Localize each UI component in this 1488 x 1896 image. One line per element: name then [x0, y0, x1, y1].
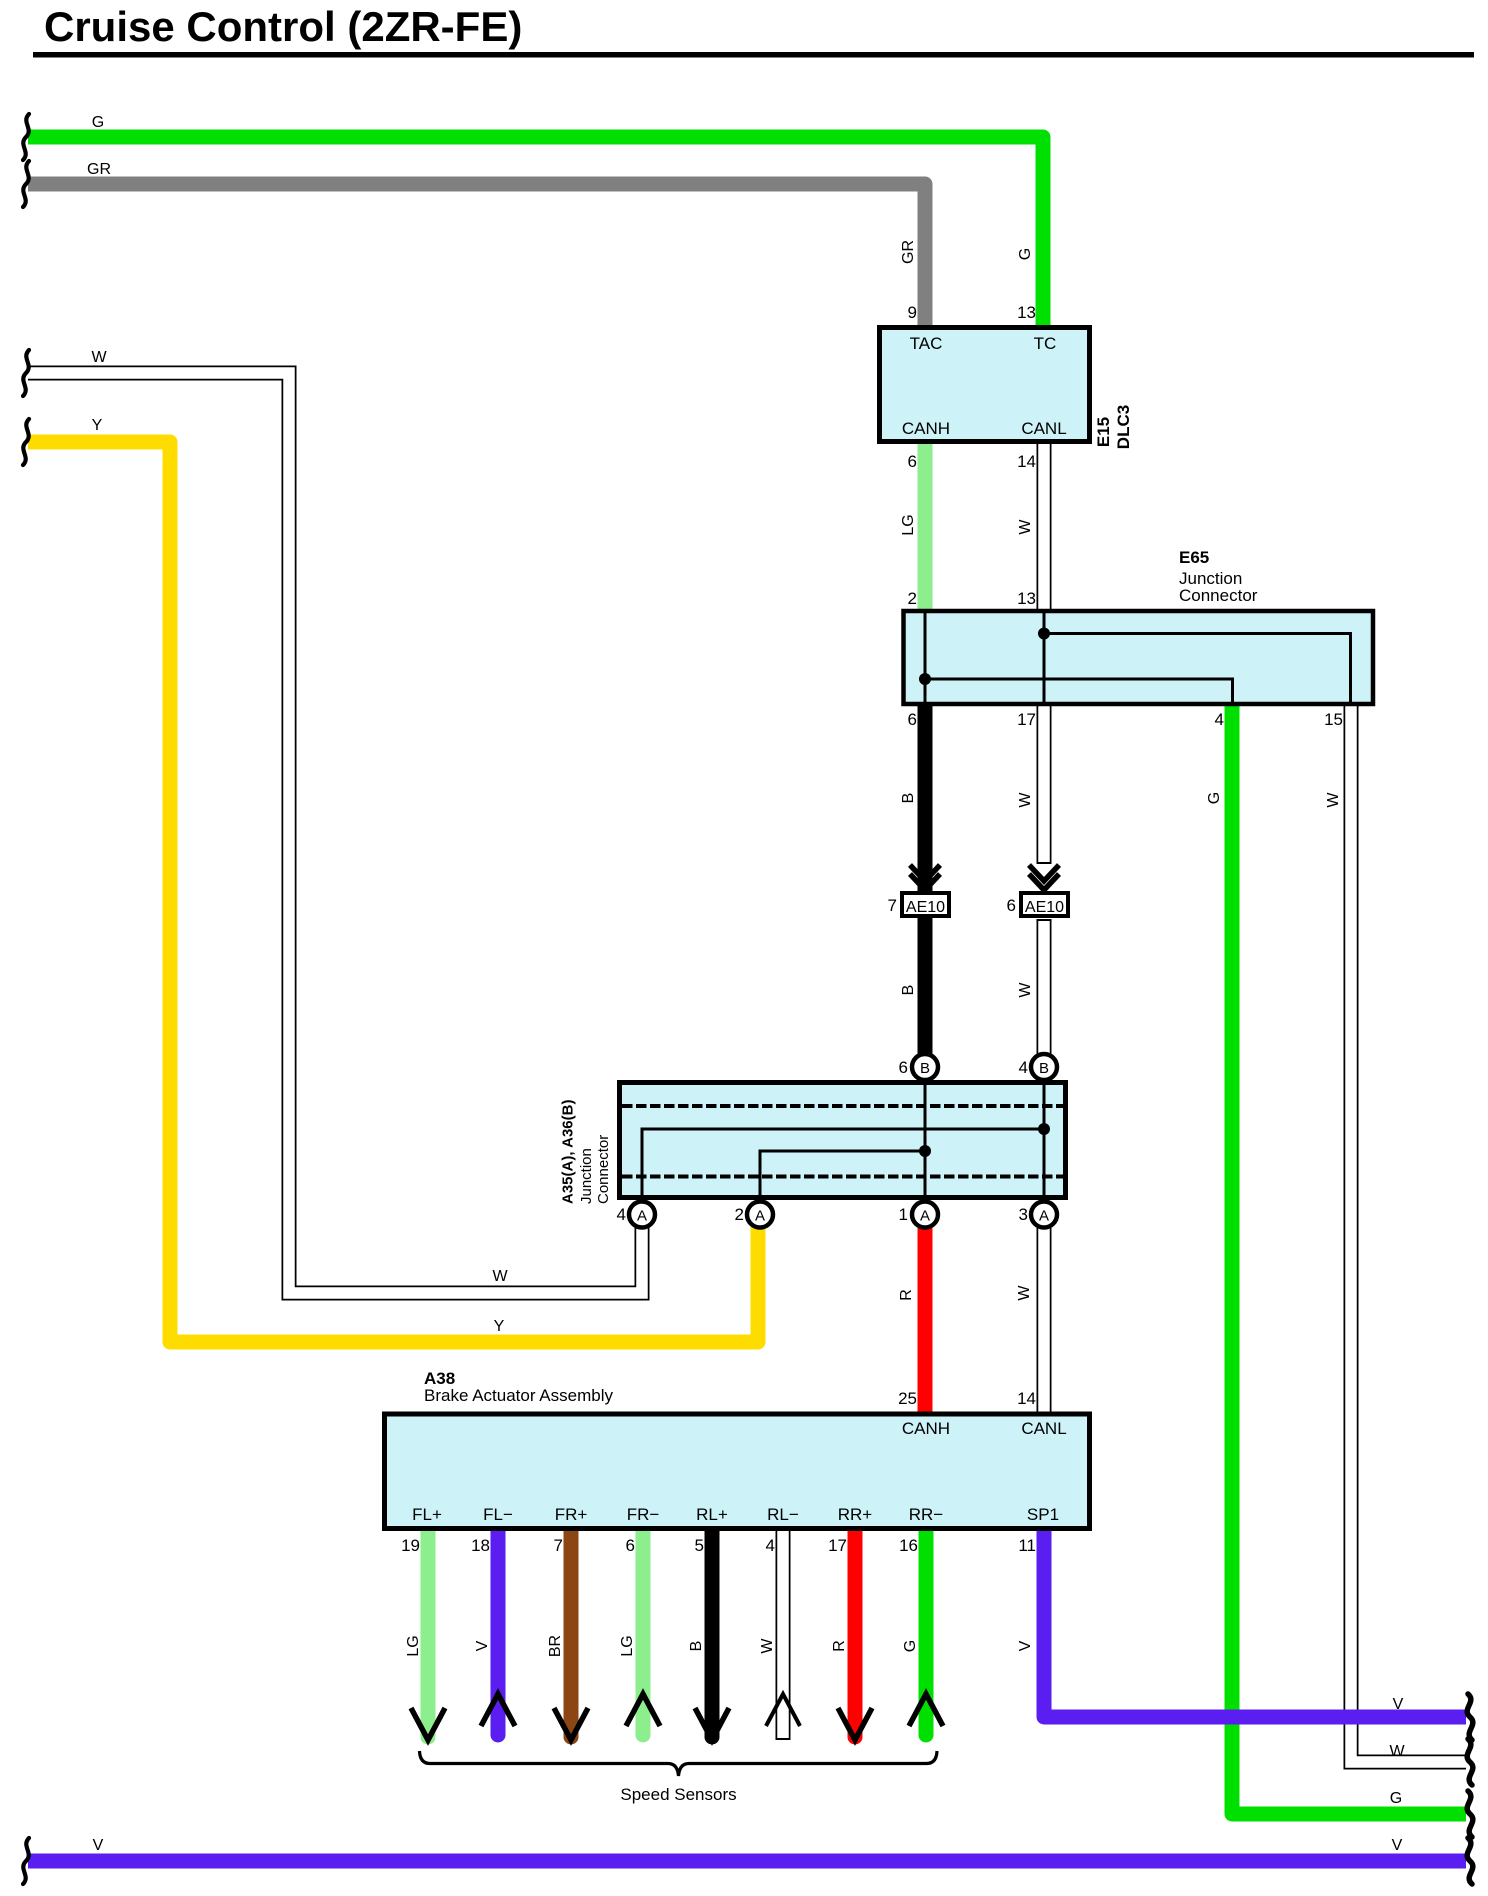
svg-text:W: W: [1017, 519, 1034, 535]
wire GR horizontal to E15 TAC: [28, 184, 925, 327]
wire G horizontal to E15 TC: [28, 137, 1043, 327]
svg-text:Connector: Connector: [1179, 586, 1258, 605]
svg-text:W: W: [91, 349, 107, 366]
wire R A38 pin 17 RR+: [848, 1528, 863, 1737]
pin circle B6: [912, 1054, 938, 1080]
svg-text:18: 18: [471, 1536, 490, 1555]
svg-text:16: 16: [899, 1536, 918, 1555]
arrow up FL-: [481, 1694, 515, 1726]
svg-text:17: 17: [828, 1536, 847, 1555]
svg-text:7: 7: [554, 1536, 563, 1555]
break symbol GR left: [23, 161, 29, 207]
svg-text:2: 2: [908, 589, 917, 608]
arrow down FL+: [411, 1708, 445, 1740]
svg-text:R: R: [898, 1289, 915, 1301]
svg-text:B: B: [900, 985, 917, 996]
wire LG E15 CANH to E65 pin 2: [918, 444, 933, 611]
svg-text:14: 14: [1017, 1389, 1036, 1408]
svg-text:15: 15: [1324, 710, 1343, 729]
svg-text:RL−: RL−: [767, 1505, 799, 1524]
svg-text:CANL: CANL: [1021, 419, 1066, 438]
A35 internal wire B6-A1: [924, 1084, 927, 1196]
wire V A38 pin 11 SP1 down right to break: [1044, 1528, 1466, 1717]
A35 dashed separator upper: [622, 1104, 1063, 1108]
arrow up FR-: [626, 1694, 660, 1726]
pin circle B4: [1031, 1054, 1057, 1080]
wire BR A38 pin 7 FR+: [564, 1528, 579, 1737]
svg-text:E65: E65: [1179, 548, 1209, 567]
svg-text:1: 1: [899, 1205, 908, 1224]
svg-text:Connector: Connector: [595, 1135, 612, 1204]
svg-text:LG: LG: [405, 1635, 422, 1656]
svg-text:W: W: [1017, 982, 1034, 998]
svg-text:FL−: FL−: [483, 1505, 513, 1524]
A35 junction dot B6: [919, 1145, 931, 1157]
svg-text:3: 3: [1019, 1205, 1028, 1224]
AE10 connector 1 box: [902, 893, 949, 916]
svg-text:E15: E15: [1094, 417, 1113, 447]
svg-text:BR: BR: [547, 1635, 564, 1657]
arrow up RL-: [766, 1694, 800, 1726]
svg-text:TC: TC: [1034, 334, 1057, 353]
pin circle A3: [1031, 1202, 1057, 1228]
break symbol V right: [1467, 1694, 1473, 1740]
break symbol G left: [23, 114, 29, 160]
svg-text:14: 14: [1017, 452, 1036, 471]
pin circle A4: [629, 1202, 655, 1228]
title underline: [33, 52, 1474, 58]
svg-text:LG: LG: [619, 1635, 636, 1656]
svg-text:6: 6: [908, 452, 917, 471]
connector E65 box: [904, 611, 1374, 704]
A35 internal wire to A2: [760, 1151, 925, 1196]
svg-text:4: 4: [1215, 710, 1224, 729]
svg-text:Brake Actuator Assembly: Brake Actuator Assembly: [424, 1386, 613, 1405]
E65 internal wire pin13-pin17: [1043, 613, 1046, 702]
svg-text:4: 4: [1019, 1058, 1028, 1077]
svg-text:B: B: [920, 1060, 930, 1077]
svg-text:Cruise Control (2ZR-FE): Cruise Control (2ZR-FE): [44, 3, 522, 50]
svg-text:W: W: [1016, 1285, 1033, 1301]
svg-text:V: V: [1392, 1837, 1403, 1854]
svg-text:11: 11: [1018, 1536, 1036, 1555]
svg-text:G: G: [1017, 248, 1034, 260]
svg-text:DLC3: DLC3: [1114, 405, 1133, 449]
wire LG A38 pin 19 FL+: [421, 1528, 436, 1737]
wire R A35 pin A1 to A38 pin 25: [918, 1222, 933, 1416]
svg-text:Junction: Junction: [578, 1148, 595, 1204]
AE10 connector 2 arrow: [1029, 865, 1059, 890]
svg-text:GR: GR: [900, 240, 917, 264]
svg-text:13: 13: [1017, 589, 1036, 608]
E65 junction dot pin2: [919, 673, 931, 685]
pin circle A1: [912, 1202, 938, 1228]
E65 internal wire pin2-pin6: [924, 613, 927, 702]
speed sensors brace: [420, 1751, 938, 1776]
svg-text:Y: Y: [92, 417, 103, 434]
svg-text:LG: LG: [900, 514, 917, 535]
svg-text:V: V: [474, 1640, 491, 1651]
svg-text:CANH: CANH: [902, 1419, 950, 1438]
arrow down RR+: [838, 1708, 872, 1740]
svg-text:V: V: [1393, 1696, 1404, 1713]
AE10 connector 2 box: [1021, 893, 1068, 916]
wire W E65 pin 15 down and right to break: [1351, 704, 1466, 1762]
connector A35/A36 box: [620, 1083, 1066, 1198]
break symbol W right: [1467, 1739, 1473, 1785]
wire LG A38 pin 6 FR-: [636, 1528, 651, 1735]
wire W AE10 to A35 pin B4: [1037, 919, 1052, 1060]
E65 internal wire pin13-pin15: [1044, 634, 1351, 703]
svg-text:4: 4: [617, 1205, 626, 1224]
svg-text:G: G: [902, 1640, 919, 1652]
svg-text:CANH: CANH: [902, 419, 950, 438]
svg-text:17: 17: [1017, 710, 1036, 729]
svg-text:RR+: RR+: [838, 1505, 873, 1524]
pin circle A2: [747, 1202, 773, 1228]
svg-text:SP1: SP1: [1027, 1505, 1059, 1524]
wire W E15 CANL to E65 pin 13: [1037, 442, 1052, 611]
svg-text:AE10: AE10: [906, 899, 945, 916]
wire W A35 pin A3 to A38 pin 14: [1037, 1222, 1052, 1416]
svg-text:A35(A), A36(B): A35(A), A36(B): [560, 1100, 577, 1204]
arrow down RL+: [695, 1708, 729, 1740]
wire Y left to A35 pin A2: [28, 442, 758, 1342]
svg-text:W: W: [1017, 792, 1034, 808]
arrow down FR+: [554, 1708, 588, 1740]
svg-text:G: G: [92, 114, 104, 131]
svg-text:V: V: [1017, 1640, 1034, 1651]
AE10 connector 1 arrow: [910, 865, 940, 890]
break symbol W left: [23, 350, 29, 396]
svg-text:B: B: [688, 1641, 705, 1652]
svg-text:V: V: [93, 1837, 104, 1854]
svg-text:FR+: FR+: [555, 1505, 588, 1524]
svg-text:RL+: RL+: [696, 1505, 728, 1524]
svg-text:GR: GR: [87, 161, 111, 178]
svg-text:6: 6: [626, 1536, 635, 1555]
svg-text:25: 25: [898, 1389, 917, 1408]
svg-text:4: 4: [766, 1536, 775, 1555]
svg-text:R: R: [831, 1640, 848, 1652]
svg-text:7: 7: [888, 896, 897, 915]
svg-text:RR−: RR−: [909, 1505, 944, 1524]
wire B A38 pin 5 RL+: [705, 1528, 720, 1737]
wire W E65 pin 17 to AE10: [1037, 704, 1052, 864]
svg-text:B: B: [1039, 1060, 1049, 1077]
E65 junction dot pin13: [1038, 628, 1050, 640]
A35 junction dot B4: [1038, 1123, 1050, 1135]
svg-text:FL+: FL+: [412, 1505, 442, 1524]
svg-text:A: A: [755, 1208, 765, 1225]
wire G E65 pin 4 down and right to break: [1232, 704, 1466, 1814]
svg-text:TAC: TAC: [910, 334, 943, 353]
A35 internal wire B4-A3: [1043, 1084, 1046, 1196]
connector A38 box: [385, 1414, 1090, 1529]
break symbol Y left: [23, 419, 29, 465]
wire B E65 pin 6 to AE10 and to A35 pin B6: [918, 704, 933, 1060]
svg-text:W: W: [1389, 1743, 1405, 1760]
svg-text:13: 13: [1017, 303, 1036, 322]
wire W left to A35 pin A4: [28, 373, 642, 1293]
wire G A38 pin 16 RR-: [919, 1528, 934, 1735]
svg-text:A: A: [637, 1208, 647, 1225]
svg-text:A: A: [920, 1208, 930, 1225]
E65 internal wire pin2-pin4: [925, 679, 1233, 702]
svg-text:Y: Y: [494, 1318, 505, 1335]
svg-text:6: 6: [908, 710, 917, 729]
svg-text:2: 2: [735, 1205, 744, 1224]
svg-text:6: 6: [899, 1058, 908, 1077]
svg-text:G: G: [1206, 792, 1223, 804]
wire V bottom horizontal: [28, 1854, 1466, 1869]
svg-text:W: W: [759, 1638, 776, 1654]
break symbol V bottom right: [1467, 1838, 1473, 1884]
svg-text:G: G: [1390, 1790, 1402, 1807]
svg-text:FR−: FR−: [627, 1505, 660, 1524]
svg-text:B: B: [900, 793, 917, 804]
svg-text:6: 6: [1007, 896, 1016, 915]
svg-text:A: A: [1039, 1208, 1049, 1225]
wire W A38 pin 4 RL-: [776, 1528, 791, 1740]
break symbol G right: [1467, 1791, 1473, 1837]
svg-text:CANL: CANL: [1021, 1419, 1066, 1438]
svg-text:AE10: AE10: [1025, 899, 1064, 916]
svg-text:W: W: [1325, 792, 1342, 808]
svg-text:Speed Sensors: Speed Sensors: [620, 1785, 736, 1804]
arrow up RR-: [909, 1694, 943, 1726]
connector E15 DLC3 box: [880, 328, 1090, 442]
svg-text:19: 19: [401, 1536, 420, 1555]
wire V A38 pin 18 FL-: [491, 1528, 506, 1735]
svg-text:W: W: [492, 1268, 508, 1285]
svg-text:5: 5: [695, 1536, 704, 1555]
break symbol V bottom left: [23, 1838, 29, 1884]
A35 internal wire to A4: [642, 1129, 1044, 1196]
svg-text:9: 9: [908, 303, 917, 322]
A35 dashed separator lower: [622, 1175, 1063, 1179]
